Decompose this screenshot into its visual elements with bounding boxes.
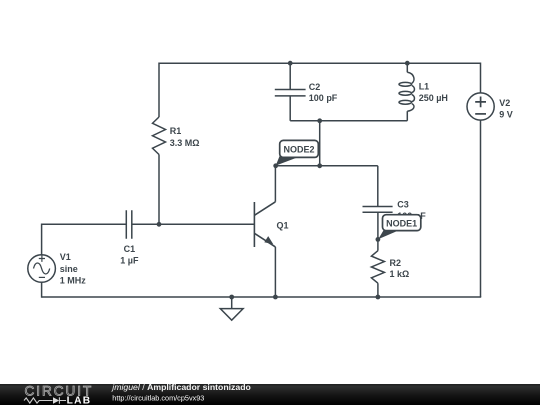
svg-text:C1: C1 [124, 244, 136, 254]
node junction tank bottom [317, 118, 322, 123]
svg-text:LAB: LAB [67, 395, 92, 405]
node NODE1 flag [378, 215, 421, 240]
wire R2 bottom lead [377, 283, 379, 297]
wire top rail [159, 62, 481, 64]
node junction R2 bottom [376, 295, 381, 300]
wire right branch lower [480, 120, 482, 297]
logo resistor zigzag [24, 398, 53, 403]
node junction NODE1 [376, 237, 381, 242]
svg-text:R2: R2 [390, 258, 402, 268]
node junction collector left [273, 163, 278, 168]
svg-text:jmiguel / Amplificador sintoni: jmiguel / Amplificador sintonizado [111, 382, 251, 392]
svg-text:L1: L1 [419, 82, 430, 92]
wire collector node horizontal [275, 165, 377, 167]
svg-text:1 MHz: 1 MHz [60, 275, 87, 285]
wire C1 to Q1 base [132, 223, 255, 225]
wire L1 bottom lead [406, 111, 408, 121]
svg-text:sine: sine [60, 264, 78, 274]
resistor R1 [153, 117, 166, 155]
capacitor C3 [363, 207, 393, 213]
resistor R2 [371, 251, 384, 284]
wire right branch upper [480, 63, 482, 94]
node junction L1 top [405, 61, 410, 66]
svg-text:R1: R1 [170, 126, 182, 136]
node junction C2 top [288, 61, 293, 66]
footer bar [0, 382, 540, 405]
wire R1 bottom lead [158, 155, 160, 225]
svg-text:NODE1: NODE1 [386, 219, 417, 229]
wire C2 bottom lead [289, 96, 291, 121]
wire collector to C3 [377, 166, 379, 207]
capacitor C1 [126, 210, 132, 239]
transistor Q1 [254, 202, 275, 247]
ground [220, 309, 243, 321]
svg-text:Q1: Q1 [277, 221, 289, 231]
svg-text:1 kΩ: 1 kΩ [390, 269, 410, 279]
wire L1 top lead [406, 63, 408, 72]
voltage source V2 [467, 93, 494, 120]
inductor L1 [407, 72, 414, 111]
wire bottom rail [42, 296, 482, 298]
node junction R1/C1 [157, 222, 162, 227]
wire Q1 collector vertical [274, 166, 276, 202]
node junction ground [229, 295, 234, 300]
wire V1 to C1 [42, 224, 127, 255]
svg-text:V2: V2 [499, 98, 510, 108]
wire R1 top lead [158, 63, 160, 118]
wire tank to collector node [319, 121, 321, 166]
svg-text:http://circuitlab.com/cp5vx93: http://circuitlab.com/cp5vx93 [112, 394, 204, 403]
svg-text:1 µF: 1 µF [120, 256, 139, 266]
wire Q1 emitter vertical [274, 247, 276, 297]
svg-text:3.3 MΩ: 3.3 MΩ [170, 138, 200, 148]
node junction emitter bottom [273, 295, 278, 300]
wire C2 top lead [289, 63, 291, 89]
svg-text:100 pF: 100 pF [309, 93, 338, 103]
node junction collector mid [317, 163, 322, 168]
svg-text:V1: V1 [60, 252, 71, 262]
wire V1 bottom lead [41, 282, 43, 298]
node NODE2 flag [276, 140, 319, 165]
voltage source V1 [28, 255, 56, 283]
logo diode [53, 397, 59, 403]
wire ground stem [231, 297, 233, 309]
capacitor C2 [275, 90, 306, 96]
wire C3 to R2 [377, 212, 379, 250]
svg-text:C3: C3 [397, 200, 409, 210]
wire tank bottom rail [290, 120, 407, 122]
svg-text:C2: C2 [309, 82, 321, 92]
svg-text:250 µH: 250 µH [419, 93, 448, 103]
svg-text:NODE2: NODE2 [283, 145, 314, 155]
svg-text:9 V: 9 V [499, 109, 513, 119]
